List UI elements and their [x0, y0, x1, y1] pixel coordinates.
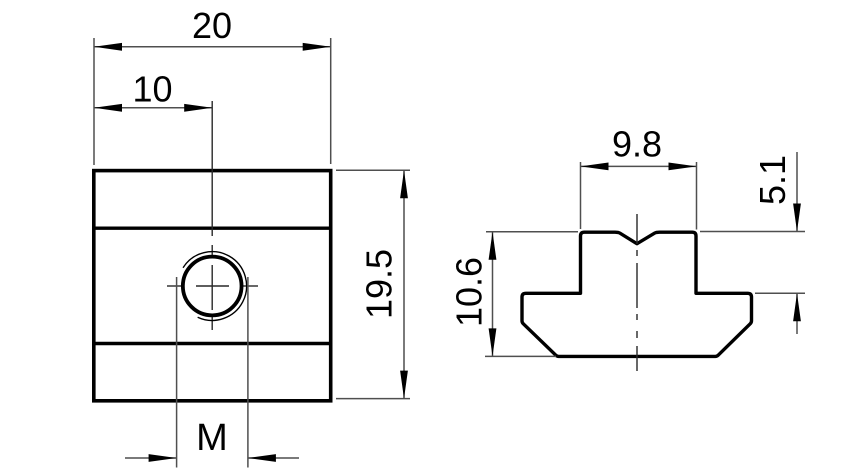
svg-text:10.6: 10.6: [448, 257, 489, 327]
extension line 5.1 bottom (y=293.3): [755, 292, 805, 294]
extension line 10.6 bottom (y=356.5): [485, 355, 556, 357]
T-nut profile (side view): [522, 232, 752, 356]
dimension 5.1: [752, 152, 801, 334]
svg-text:10: 10: [132, 69, 172, 110]
dimension M: [125, 417, 299, 462]
svg-text:5.1: 5.1: [752, 155, 793, 205]
extension line 10.6 top (y=231.8): [486, 231, 578, 233]
top band edge line: [94, 226, 331, 229]
profile vertical centerline: [636, 214, 638, 371]
svg-text:9.8: 9.8: [612, 124, 662, 165]
extension line M left (x=176.8): [176, 277, 178, 468]
extension line right of view (top, y=170): [336, 169, 410, 171]
threaded hole minor circle: [183, 257, 242, 316]
thread major arc: [183, 252, 247, 321]
extension line 5.1 top (y=231.5): [700, 231, 805, 233]
dimension 10.6: [448, 232, 496, 357]
extension line 9.8 right (x=696.5): [696, 162, 698, 230]
extension line right of view (bottom, y=398.5): [336, 398, 410, 400]
vertical centerline of hole: [211, 101, 213, 330]
svg-text:M: M: [196, 417, 228, 459]
extension line 9.8 left (x=580.5): [580, 162, 582, 229]
dimension 19.5: [358, 170, 408, 398]
nut body outline (front view): [94, 171, 331, 401]
horizontal centerline of hole: [167, 285, 258, 287]
extension line M right (x=247.2): [247, 277, 249, 468]
dimension 9.8: [581, 124, 697, 171]
dimension 10: [94, 69, 212, 112]
svg-text:20: 20: [192, 5, 232, 46]
dimension 20: [94, 5, 331, 51]
extension line left (x=93): [93, 38, 95, 165]
extension line right (x=330): [330, 38, 332, 164]
svg-text:19.5: 19.5: [358, 249, 399, 319]
bottom band edge line: [94, 342, 331, 345]
